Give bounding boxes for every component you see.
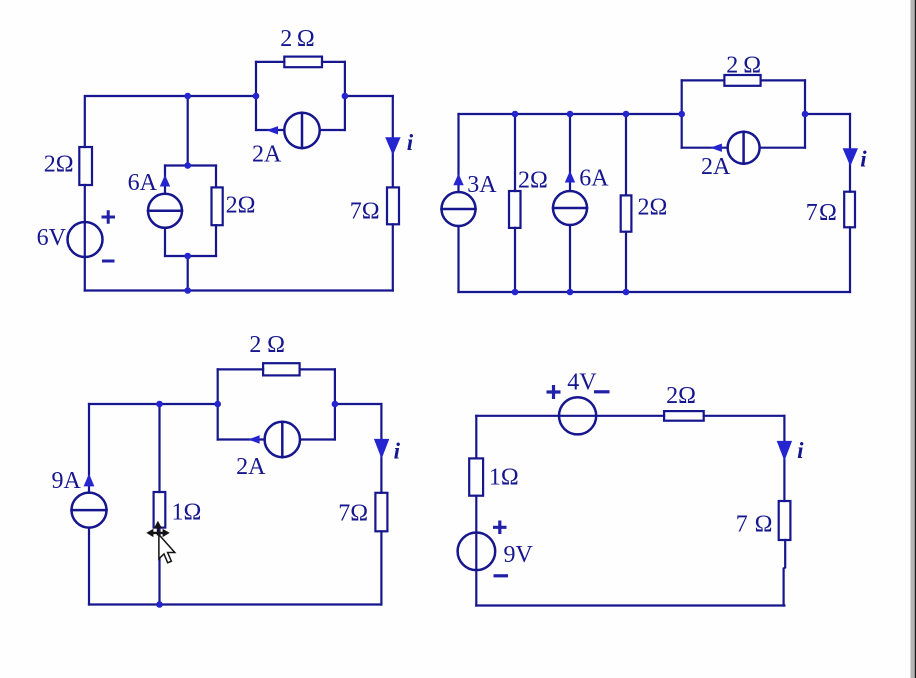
current source 9A bar bbox=[72, 509, 107, 512]
arrow: 9A source up bbox=[84, 474, 95, 487]
svg-text:9A: 9A bbox=[52, 468, 82, 494]
wire: circuit1 parallel combo top bbox=[165, 164, 216, 166]
node circuit2 loop right bbox=[802, 111, 809, 118]
wire: circuit4 left vertical upper bbox=[475, 416, 477, 459]
resistor 7ohm circuit4 bbox=[779, 501, 791, 540]
wire: circuit1 6A branch lower lead bbox=[164, 228, 166, 256]
resistor 1ohm circuit3 bbox=[154, 492, 166, 528]
wire: circuit3 middle vertical upper bbox=[158, 404, 160, 492]
wire: circuit3 bottom rail bbox=[89, 603, 381, 605]
resistor 2ohm circuit3 loop bbox=[263, 363, 300, 375]
arrow: 6A circuit2 up bbox=[565, 171, 575, 183]
mouse pointer arrow bbox=[159, 535, 175, 563]
resistor 2ohm circuit2 loop bbox=[724, 75, 760, 86]
wire: circuit3 loop right vertical bbox=[334, 369, 336, 439]
wire: circuit1 loop top branch bbox=[256, 61, 345, 63]
node circuit3 bottom mid bbox=[156, 601, 163, 608]
current source 6A circuit2 bar bbox=[553, 207, 587, 210]
wire: circuit2 right vertical lower bbox=[849, 227, 851, 292]
arrow: current i circuit1 down bbox=[385, 137, 400, 155]
wire: circuit2 right vertical upper bbox=[849, 114, 851, 192]
svg-text:Ω: Ω bbox=[743, 53, 761, 79]
node circuit3 top mid bbox=[156, 401, 163, 408]
current source 6A bar bbox=[148, 210, 182, 213]
svg-text:2Ω: 2Ω bbox=[518, 168, 548, 194]
wire: circuit1 bottom rail bbox=[85, 289, 393, 291]
wire: circuit3 middle vertical lower bbox=[158, 528, 160, 605]
arrow: 2A circuit2 left bbox=[710, 144, 722, 152]
wire: circuit2 2ohm branch-b lower bbox=[514, 228, 516, 292]
svg-text:2A: 2A bbox=[252, 142, 282, 168]
node circuit1 combo top bbox=[184, 162, 191, 169]
svg-text:7Ω: 7Ω bbox=[350, 198, 380, 224]
current source 2A circuit3 bbox=[265, 422, 300, 457]
svg-text:i: i bbox=[797, 438, 804, 463]
wire: circuit4 bottom rail bbox=[476, 604, 784, 606]
polarity minus 9V bbox=[494, 574, 509, 577]
wire: circuit3 loop top branch bbox=[218, 368, 335, 370]
current source 2A circuit1 bbox=[284, 113, 319, 148]
svg-text:6V: 6V bbox=[37, 225, 67, 251]
svg-text:6A: 6A bbox=[579, 166, 609, 192]
current source 2A circuit2 bbox=[728, 132, 760, 164]
node circuit2 loop left bbox=[678, 111, 685, 118]
wire: circuit3 right vertical lower bbox=[380, 531, 382, 604]
wire: circuit2 6A branch upper bbox=[569, 114, 571, 191]
svg-text:6A: 6A bbox=[128, 170, 158, 196]
node circuit1 loop right bbox=[342, 93, 349, 100]
mouse move-cursor black cross arrows bbox=[146, 521, 169, 537]
node circuit1 top-rail mid bbox=[184, 93, 191, 100]
svg-text:7: 7 bbox=[806, 200, 818, 226]
current source 2A circuit2 bar bbox=[742, 132, 745, 164]
node circuit2 top d bbox=[623, 111, 630, 118]
svg-text:4V: 4V bbox=[567, 369, 597, 395]
wire: circuit1 loop bottom branch left bbox=[256, 129, 284, 131]
svg-text:2: 2 bbox=[249, 332, 261, 358]
current source 9A circuit3 bbox=[72, 493, 107, 528]
node circuit3 loop left bbox=[214, 401, 221, 408]
svg-text:i: i bbox=[394, 438, 401, 463]
svg-text:7: 7 bbox=[736, 511, 748, 537]
resistor 7ohm circuit3 bbox=[375, 493, 387, 532]
arrow: 3A source up bbox=[453, 174, 463, 186]
wire: circuit1 right vertical lower bbox=[392, 224, 394, 290]
voltage source 4V circuit4 bbox=[559, 397, 596, 434]
node circuit2 bottom c bbox=[567, 289, 574, 296]
svg-text:2Ω: 2Ω bbox=[226, 193, 256, 219]
wire: circuit1 parallel combo bottom bbox=[165, 255, 216, 257]
svg-text:Ω: Ω bbox=[819, 200, 837, 226]
resistor 2ohm circuit4 bbox=[664, 411, 704, 421]
polarity minus 4V bbox=[594, 390, 610, 393]
arrow: current i circuit3 down bbox=[374, 439, 389, 459]
resistor 7ohm circuit1 bbox=[387, 187, 399, 224]
wire: circuit3 loop bottom left bbox=[218, 438, 265, 440]
wire: circuit4 right vertical lower with jog bbox=[784, 540, 786, 606]
polarity plus 6V bbox=[102, 210, 116, 223]
wire: circuit3 left vertical lower bbox=[88, 528, 90, 605]
svg-text:2A: 2A bbox=[701, 154, 731, 180]
resistor 1ohm circuit4 bbox=[469, 458, 483, 495]
voltage source 6V circuit1 bbox=[68, 222, 103, 257]
wire: circuit1 top rail left segment bbox=[85, 96, 256, 147]
node circuit2 bottom d bbox=[623, 289, 630, 296]
node circuit1 bottom rail bbox=[184, 287, 191, 294]
wire: circuit4 left vertical lower bbox=[475, 496, 477, 606]
node circuit1 loop left bbox=[253, 93, 260, 100]
svg-text:2Ω: 2Ω bbox=[638, 195, 668, 221]
current source 3A bar bbox=[442, 208, 476, 211]
arrow: 6A source up bbox=[160, 175, 170, 187]
resistor 2ohm circuit1 left bbox=[79, 147, 92, 185]
current source 6A circuit2 bbox=[553, 191, 587, 225]
svg-text:2: 2 bbox=[280, 26, 292, 52]
svg-text:Ω: Ω bbox=[267, 332, 285, 358]
voltage source 9V circuit4 bbox=[458, 533, 496, 571]
arrow: 2A source left bbox=[266, 126, 278, 134]
wire: circuit2 bottom rail bbox=[459, 291, 851, 293]
svg-text:9V: 9V bbox=[504, 542, 534, 568]
polarity plus 9V bbox=[493, 521, 507, 535]
resistor 2ohm circuit1 middle bbox=[212, 187, 223, 225]
arrow: 2A circuit3 left bbox=[248, 435, 260, 443]
wire: circuit1 right vertical upper bbox=[392, 96, 394, 187]
resistor 2ohm circuit2 branch-d bbox=[621, 195, 632, 231]
wire: circuit3 rail node to right bbox=[335, 403, 382, 405]
wire: circuit1 loop left vertical bbox=[255, 62, 257, 130]
wire: circuit3 left vertical upper bbox=[88, 404, 90, 493]
wire: circuit3 loop left vertical bbox=[217, 369, 219, 439]
svg-text:1Ω: 1Ω bbox=[172, 500, 202, 526]
resistor 2ohm circuit1 loop top bbox=[284, 57, 322, 68]
wire: circuit2 loop bottom right bbox=[760, 147, 805, 149]
wire: circuit2 loop right vertical bbox=[804, 80, 806, 147]
wire: circuit1 2ohm branch upper lead bbox=[215, 166, 217, 188]
svg-text:Ω: Ω bbox=[297, 26, 315, 52]
right edge scrollbar strip bbox=[911, 0, 916, 678]
svg-text:Ω: Ω bbox=[755, 511, 773, 537]
node circuit1 combo bottom bbox=[184, 253, 191, 260]
wire: circuit2 loop bottom left bbox=[682, 147, 728, 149]
resistor 7ohm circuit2 bbox=[844, 192, 855, 228]
svg-text:7Ω: 7Ω bbox=[338, 500, 368, 526]
wire: circuit1 middle vertical lower bbox=[187, 256, 189, 291]
wire: circuit2 rail node to right bbox=[805, 113, 850, 115]
wire: circuit4 right vertical upper bbox=[783, 416, 785, 501]
wire: circuit2 2ohm branch-d lower bbox=[625, 232, 627, 292]
svg-text:i: i bbox=[407, 130, 414, 155]
node circuit2 top c bbox=[567, 111, 574, 118]
svg-text:2: 2 bbox=[726, 53, 738, 79]
resistor 2ohm circuit2 branch-b bbox=[509, 191, 521, 228]
wire: circuit1 2ohm branch lower lead bbox=[215, 225, 217, 256]
svg-text:2A: 2A bbox=[236, 454, 266, 480]
current source 2A bar bbox=[301, 113, 304, 148]
svg-text:2Ω: 2Ω bbox=[666, 383, 696, 409]
arrow: current i circuit2 down bbox=[843, 148, 858, 166]
wire: circuit1 middle vertical upper bbox=[187, 96, 189, 166]
svg-text:3A: 3A bbox=[467, 172, 497, 198]
svg-text:2Ω: 2Ω bbox=[44, 152, 74, 178]
wire: circuit1 loop right vertical bbox=[344, 62, 346, 130]
wire: circuit1 loop bottom branch right bbox=[320, 129, 345, 131]
wire: circuit2 top rail bbox=[459, 113, 682, 115]
wire: circuit3 right vertical upper bbox=[380, 404, 382, 493]
polarity plus 4V bbox=[547, 385, 561, 399]
wire: circuit2 3A branch upper bbox=[457, 114, 459, 192]
arrow: current i circuit4 down bbox=[777, 441, 792, 461]
current source 3A circuit2 bbox=[442, 192, 476, 226]
svg-text:1Ω: 1Ω bbox=[489, 464, 519, 490]
wire: circuit1 6A branch upper lead bbox=[164, 166, 166, 194]
wire: circuit2 2ohm branch-d upper bbox=[625, 114, 627, 195]
wire: circuit2 loop left vertical bbox=[681, 80, 683, 147]
node circuit3 loop right bbox=[332, 401, 339, 408]
current source 6A circuit1 bbox=[148, 194, 182, 228]
svg-text:i: i bbox=[860, 146, 867, 171]
wire: circuit1 top rail right segment bbox=[345, 95, 393, 97]
node circuit2 top b bbox=[512, 111, 519, 118]
current source 2A circuit3 bar bbox=[281, 422, 284, 457]
wire: circuit2 2ohm branch-b upper bbox=[514, 114, 516, 191]
wire: circuit3 loop bottom right bbox=[300, 438, 335, 440]
wire: circuit3 top rail bbox=[89, 403, 218, 405]
polarity minus 6V bbox=[102, 260, 115, 263]
wire: circuit2 3A branch lower bbox=[457, 226, 459, 292]
node circuit2 bottom b bbox=[512, 289, 519, 296]
wire: circuit2 loop top branch bbox=[682, 79, 805, 81]
wire: circuit2 6A branch lower bbox=[569, 225, 571, 292]
wire: circuit1 left vertical below resistor bbox=[84, 185, 86, 291]
wire: circuit4 top rail bbox=[476, 415, 784, 417]
